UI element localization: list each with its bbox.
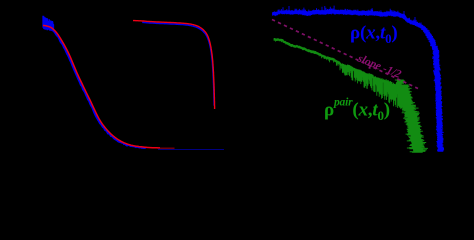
left panel: dark blue flat tail wire — [158, 149, 224, 151]
right panel: dashed guide line slope -1/2 — [272, 20, 418, 89]
left panel: red fit faint tail — [160, 147, 175, 149]
left panel: red fit curve — [43, 26, 160, 148]
right panel: green curve drop part — [395, 80, 428, 152]
inset: red fit curve — [133, 21, 215, 109]
right panel: green noisy pair-correlation curve — [274, 38, 402, 106]
left panel: blue data curve — [44, 26, 146, 148]
inset: blue data curve — [142, 22, 214, 105]
right panel: blue noisy curve rho(x,t0) flat part — [273, 6, 431, 41]
left panel: blue noisy start blob — [43, 16, 54, 32]
right panel: blue noisy curve drop part — [418, 26, 445, 151]
right panel: green curve tall noise spikes — [340, 63, 403, 110]
